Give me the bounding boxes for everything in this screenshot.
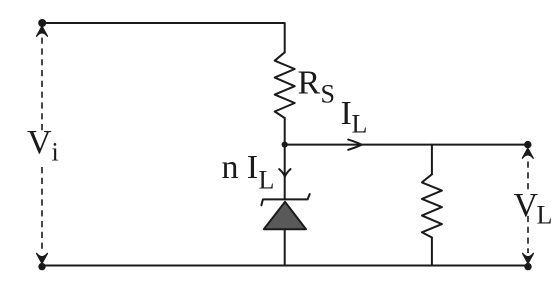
svg-text:S: S [321, 79, 335, 108]
svg-text:V: V [514, 187, 539, 224]
svg-text:V: V [27, 124, 52, 161]
svg-text:L: L [352, 110, 368, 139]
svg-text:i: i [52, 138, 59, 167]
svg-text:R: R [298, 65, 321, 102]
svg-text:I: I [247, 149, 258, 186]
svg-text:I: I [341, 95, 352, 132]
svg-text:L: L [259, 166, 275, 195]
svg-text:L: L [537, 201, 553, 230]
svg-text:n: n [222, 149, 239, 186]
